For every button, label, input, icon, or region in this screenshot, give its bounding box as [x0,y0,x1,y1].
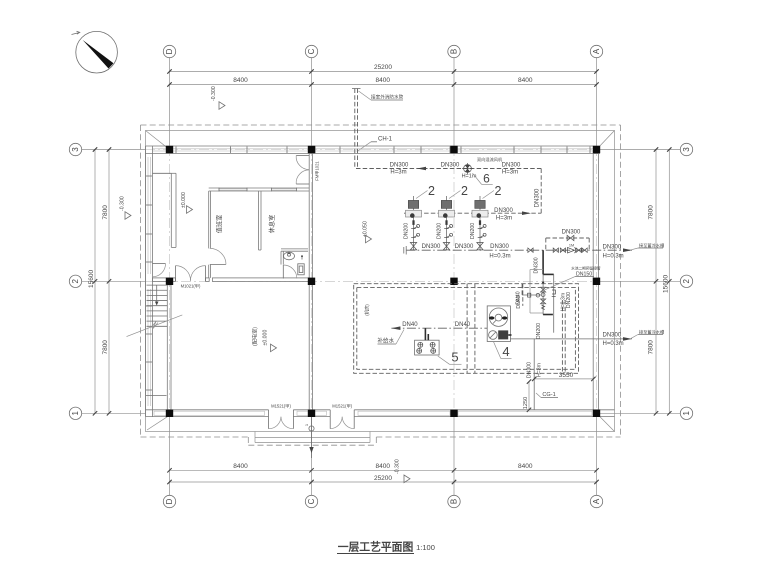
svg-text:8400: 8400 [376,77,391,84]
svg-text:1250: 1250 [523,397,529,409]
svg-text:CH-1: CH-1 [378,137,393,143]
svg-text:DN300: DN300 [502,162,521,168]
svg-text:DN300: DN300 [603,245,622,251]
svg-text:4: 4 [502,344,509,359]
svg-text:DN300: DN300 [390,162,409,168]
svg-text:2: 2 [71,279,80,284]
svg-text:(配电室): (配电室) [250,327,258,346]
svg-text:-0.300: -0.300 [211,86,217,101]
svg-text:DN40: DN40 [455,322,471,328]
svg-text:1:100: 1:100 [416,543,435,552]
svg-text:补给水: 补给水 [378,337,395,345]
svg-text:7800: 7800 [648,205,655,220]
svg-text:7800: 7800 [102,340,109,355]
svg-text:水池二期预留接管: 水池二期预留接管 [571,265,601,270]
svg-text:DN300: DN300 [562,230,581,236]
svg-text:8400: 8400 [518,463,533,470]
svg-text:A: A [592,498,601,504]
svg-text:(机房): (机房) [364,304,371,316]
svg-text:-0.300: -0.300 [120,196,126,211]
svg-text:DN40: DN40 [402,322,418,328]
svg-text:一层工艺平面图: 一层工艺平面图 [338,540,414,554]
svg-text:双向混流风机: 双向混流风机 [477,156,503,163]
svg-text:3: 3 [682,147,691,152]
svg-text:H=3m: H=3m [502,170,518,176]
svg-text:H=3m: H=3m [496,216,512,222]
svg-text:2: 2 [495,184,502,198]
svg-text:H=0.3m: H=0.3m [489,254,510,260]
svg-text:8400: 8400 [518,77,533,84]
svg-text:H=3m: H=3m [537,363,543,377]
svg-text:2: 2 [682,279,691,284]
svg-text:DN300: DN300 [422,244,441,250]
svg-text:3550: 3550 [559,372,574,379]
svg-text:D: D [165,48,174,54]
svg-text:休息室: 休息室 [268,215,276,234]
svg-text:B: B [450,499,459,504]
svg-text:-0.300: -0.300 [394,459,400,474]
svg-text:6: 6 [483,171,490,185]
svg-text:7800: 7800 [648,340,655,355]
svg-text:接室外消防水管: 接室外消防水管 [371,94,404,101]
svg-text:DN300: DN300 [527,362,533,378]
svg-text:2: 2 [461,184,468,198]
svg-text:25200: 25200 [374,64,392,71]
svg-text:DN300: DN300 [494,208,513,214]
svg-text:H=1m: H=1m [462,174,477,180]
svg-text:±0.000: ±0.000 [263,330,269,346]
svg-text:DN300: DN300 [533,257,539,273]
svg-text:2: 2 [428,184,435,198]
svg-text:±0.000: ±0.000 [181,192,187,208]
svg-text:DN200: DN200 [566,292,572,308]
svg-text:DN300: DN300 [490,244,509,250]
svg-text:1: 1 [682,411,691,416]
svg-text:D: D [165,498,174,504]
svg-text:25200: 25200 [374,475,392,482]
svg-text:1M: 1M [569,243,574,247]
svg-text:DN200: DN200 [403,223,409,239]
svg-text:8400: 8400 [376,463,391,470]
svg-text:H=3m: H=3m [390,170,406,176]
svg-text:1: 1 [71,411,80,416]
svg-text:DN200: DN200 [470,223,476,239]
svg-text:15600: 15600 [662,275,669,293]
svg-text:C: C [307,498,316,504]
svg-text:A: A [592,48,601,54]
svg-text:B: B [450,49,459,54]
svg-text:C: C [307,48,316,54]
svg-text:DN300: DN300 [603,333,622,339]
svg-text:DN300: DN300 [534,188,540,207]
svg-text:DN300: DN300 [455,244,474,250]
svg-text:H=0.3m: H=0.3m [603,254,624,260]
svg-text:8400: 8400 [233,463,248,470]
svg-text:15600: 15600 [88,270,95,288]
svg-text:3: 3 [71,147,80,152]
svg-text:5: 5 [451,350,458,365]
svg-text:DN200: DN200 [536,323,542,339]
svg-text:值班室: 值班室 [216,215,224,234]
svg-text:7800: 7800 [102,205,109,220]
svg-text:DN300: DN300 [441,162,460,168]
svg-text:H=0.3m: H=0.3m [603,341,624,347]
svg-text:8400: 8400 [233,77,248,84]
svg-text:DN40: DN40 [516,291,522,304]
svg-text:DN200: DN200 [436,223,442,239]
